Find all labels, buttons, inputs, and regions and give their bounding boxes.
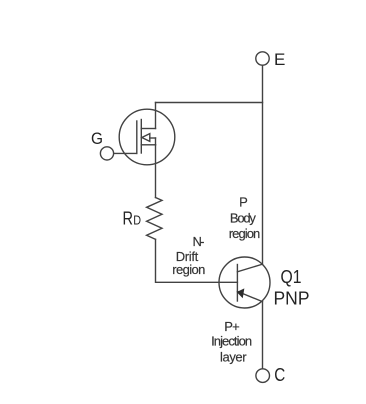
- svg-text:C: C: [274, 365, 285, 385]
- svg-text:E: E: [274, 50, 285, 69]
- svg-text:G: G: [91, 129, 103, 148]
- wire gate lead: [114, 152, 137, 154]
- wire drain vertical: [155, 103, 157, 129]
- wire top horizontal (MOSFET drain to E line): [156, 102, 263, 104]
- terminal E: [256, 52, 269, 65]
- svg-text:D: D: [133, 214, 141, 228]
- MOSFET M1: [119, 109, 175, 165]
- svg-text:N-: N-: [193, 234, 205, 249]
- svg-text:R: R: [123, 209, 134, 229]
- wire source vertical (MOSFET to resistor): [155, 145, 157, 198]
- wire emitter to C: [262, 302, 264, 369]
- transistor Q1: [219, 257, 270, 308]
- label P+ injection layer: [211, 319, 252, 365]
- svg-text:region: region: [172, 262, 205, 277]
- svg-text:PNP: PNP: [274, 288, 310, 309]
- svg-text:region: region: [229, 226, 261, 241]
- label P body region: [229, 195, 261, 242]
- resistor RD: [147, 198, 162, 240]
- svg-text:P: P: [239, 195, 248, 210]
- terminal C: [256, 369, 270, 383]
- svg-text:Injection: Injection: [211, 333, 252, 348]
- svg-text:Q1: Q1: [281, 266, 302, 287]
- wire E vertical (E circle down to Q1 collector junction): [262, 65, 264, 264]
- wire resistor to Q1 base: [156, 239, 238, 282]
- label N- drift region: [172, 234, 205, 277]
- svg-text:layer: layer: [220, 350, 247, 365]
- svg-text:Body: Body: [230, 211, 257, 226]
- svg-text:P+: P+: [224, 319, 240, 334]
- terminal G: [100, 147, 113, 160]
